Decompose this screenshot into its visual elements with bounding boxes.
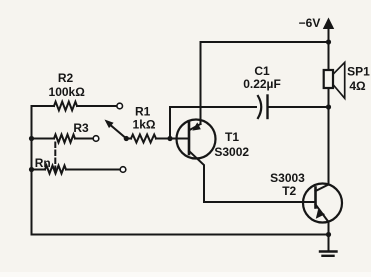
svg-text:1kΩ: 1kΩ	[133, 118, 156, 132]
terminal: Rn open contact	[120, 167, 126, 173]
wire R3 right	[75, 138, 93, 140]
svg-text:100kΩ: 100kΩ	[49, 85, 86, 99]
svg-text:R2: R2	[58, 71, 74, 85]
resistor Rn	[45, 166, 66, 174]
wire speaker top	[328, 42, 330, 70]
svg-text:Rn: Rn	[35, 156, 51, 170]
wire Rn left	[32, 169, 46, 171]
svg-text:R1: R1	[135, 105, 151, 119]
terminal: R2 open contact	[117, 103, 123, 109]
wire speaker bottom	[328, 88, 330, 107]
wire R1 right	[156, 138, 170, 140]
transistor T1 collector lead	[189, 151, 204, 202]
node: R3 junction on left bus	[29, 136, 34, 141]
wire R1 left	[126, 138, 131, 140]
supply -6V arrowhead	[323, 18, 334, 30]
ground stem	[328, 235, 330, 252]
transistor T2 collector lead	[316, 107, 329, 191]
supply -6V stem	[328, 28, 330, 42]
node: Rn junction on left bus	[29, 167, 34, 172]
transistor T1 emitter arrow	[192, 122, 201, 130]
switch S1 lever	[111, 125, 127, 138]
wire C1 left	[170, 106, 256, 108]
wire Rn right	[66, 169, 120, 171]
wire R2 left	[32, 105, 55, 107]
transistor T1 emitter lead	[190, 124, 201, 130]
transistor T2 emitter arrow	[316, 210, 325, 219]
svg-text:S3002: S3002	[214, 145, 249, 159]
wire: top rail	[201, 41, 329, 43]
speaker SP1 cone	[333, 62, 345, 98]
transistor T2 body	[303, 184, 342, 223]
resistor R3	[54, 135, 75, 143]
node: T1 base junction	[167, 136, 172, 141]
dashed gang link R3-Rn	[54, 143, 56, 170]
wire R3 left	[32, 138, 55, 140]
transistor T2 base bar	[314, 188, 317, 208]
svg-text:−6V: −6V	[299, 16, 321, 30]
wire C1 feed riser	[169, 107, 171, 139]
wire T1 base	[170, 138, 189, 140]
terminal: R3 open contact	[93, 136, 99, 142]
svg-text:4Ω: 4Ω	[349, 79, 366, 93]
svg-text:T2: T2	[282, 184, 296, 198]
speaker SP1 frame	[324, 70, 333, 88]
wire R2 right	[77, 105, 117, 107]
svg-text:SP1: SP1	[347, 65, 370, 79]
wire: bottom rail	[32, 234, 329, 236]
transistor T1 body	[177, 120, 216, 159]
svg-text:R3: R3	[73, 121, 89, 135]
resistor R2	[54, 102, 77, 111]
node: top rail / supply junction	[326, 39, 331, 44]
wire: left vertical bus	[31, 106, 33, 235]
ground bar 2	[323, 255, 334, 257]
node: emitter/rail ground junction	[326, 232, 331, 237]
switch S1 arrowhead	[105, 120, 114, 129]
svg-text:T1: T1	[225, 130, 239, 144]
ground bar 1	[320, 250, 337, 252]
node: speaker/C1/T2 junction	[326, 104, 331, 109]
capacitor C1 flat plate	[266, 96, 268, 119]
transistor T2 emitter lead	[316, 205, 329, 235]
switch S1 pivot node	[124, 136, 129, 141]
capacitor C1 curved plate	[258, 96, 261, 118]
svg-text:S3003: S3003	[270, 171, 305, 185]
svg-text:0.22µF: 0.22µF	[243, 77, 281, 91]
transistor T1 base bar	[188, 122, 191, 154]
wire T2 base run	[204, 201, 316, 203]
wire C1 right	[268, 106, 329, 108]
wire: T1 emitter riser	[200, 42, 202, 124]
resistor R1	[131, 135, 156, 143]
